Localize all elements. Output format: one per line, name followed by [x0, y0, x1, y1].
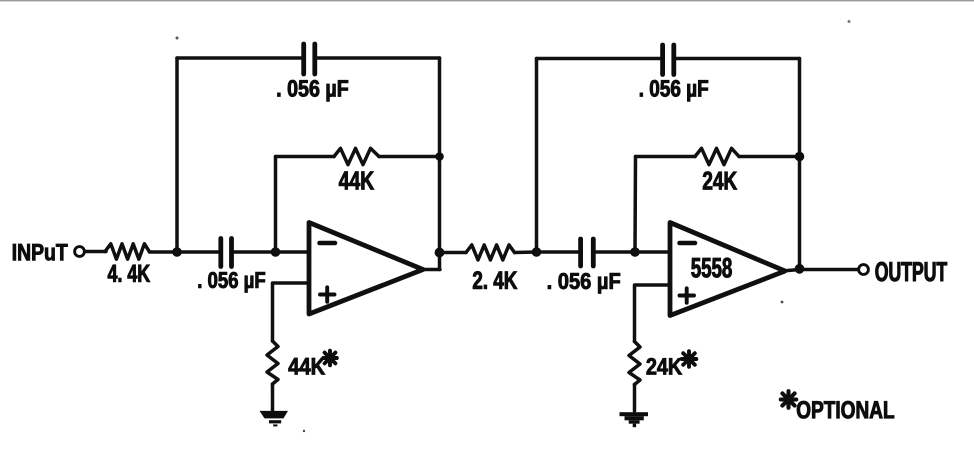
wire input terminal to R1 — [85, 250, 106, 254]
R5 wire right — [739, 155, 800, 159]
resistor R3 44K* — [267, 341, 278, 384]
INPUT label — [13, 244, 68, 261]
R6 value 24K — [647, 358, 682, 374]
C2 loop right vertical wire — [438, 58, 442, 270]
wire C1 to node B — [234, 250, 276, 254]
C4 loop right vertical wire — [798, 59, 802, 270]
C4 value .056 uF — [640, 80, 708, 101]
optional note asterisk — [781, 391, 796, 408]
capacitor C2 plates — [304, 44, 315, 74]
R6 optional asterisk — [682, 351, 697, 367]
node C output junction — [435, 248, 445, 258]
node E junction — [630, 247, 640, 257]
U1 minus input symbol — [320, 241, 336, 246]
wire R3 to ground — [271, 384, 275, 411]
wire node D to C3 — [537, 250, 579, 254]
wire R6 to ground — [633, 385, 637, 412]
wire R4 to node D — [515, 250, 537, 254]
U2 plus input wire — [635, 285, 671, 342]
resistor R5 24K — [695, 148, 739, 164]
C2 loop top wire left — [177, 56, 301, 60]
R2 loop wire left — [276, 155, 335, 159]
resistor R6 24K* — [629, 342, 640, 385]
op-amp U1 — [309, 223, 423, 315]
C1 value .056 uF — [199, 272, 266, 292]
speck top left — [176, 37, 179, 40]
R3 value 44K — [289, 358, 325, 374]
R5 value 24K — [703, 172, 737, 190]
C4 loop left vertical wire — [535, 59, 539, 253]
ground 2 — [620, 412, 649, 427]
U2 label 5558 — [691, 258, 731, 278]
R2 value 44K — [339, 172, 374, 190]
node D junction — [532, 247, 542, 257]
node A junction — [172, 247, 182, 257]
U1 output stub — [423, 268, 440, 272]
wire C3 to node E — [596, 250, 636, 254]
node F junction R5-output — [795, 152, 805, 162]
C2 value .056 uF — [277, 80, 348, 101]
wire R1 to node A — [150, 250, 178, 254]
C2 loop top wire right — [318, 56, 440, 60]
speck top right — [848, 20, 851, 23]
R4 value 2.4K — [473, 271, 517, 289]
op-amp U2 — [670, 223, 785, 316]
ground 1 — [260, 411, 289, 427]
output terminal — [859, 265, 869, 275]
R5 loop wire left — [636, 155, 696, 159]
wire node A to C1 — [177, 250, 219, 254]
OPTIONAL label — [797, 401, 894, 419]
wire node C to R4 — [440, 251, 467, 255]
input terminal — [75, 247, 85, 257]
R2 wire right — [379, 155, 440, 159]
U1 plus input wire — [273, 283, 310, 341]
wire node B to U1 minus input — [276, 250, 310, 254]
capacitor C1 plates — [221, 239, 232, 267]
U2 plus input symbol — [680, 288, 695, 302]
resistor R4 2.4K — [466, 245, 515, 260]
R5 loop left vertical wire — [633, 157, 637, 253]
U1 plus input symbol — [320, 287, 335, 301]
C2 loop left vertical wire — [175, 58, 179, 252]
resistor R1 4.4K — [105, 244, 150, 259]
C3 value .056 uF — [548, 273, 620, 293]
node B junction — [271, 247, 281, 257]
U2 minus input symbol — [680, 241, 696, 246]
OUTPUT label — [876, 262, 948, 281]
U2 output stub — [785, 270, 800, 271]
capacitor C4 plates — [663, 45, 674, 75]
node G output junction — [795, 264, 805, 274]
R3 optional asterisk — [323, 351, 337, 366]
wire node G to output terminal — [800, 268, 859, 272]
C4 loop top wire left — [537, 57, 661, 61]
speck mid right — [781, 301, 784, 304]
R1 value 4.4K — [108, 265, 150, 282]
top border line — [0, 0, 974, 1]
C4 loop top wire right — [677, 57, 800, 61]
R2 loop left vertical wire — [274, 157, 278, 253]
speck bottom — [303, 430, 305, 432]
node R2-output junction — [435, 152, 444, 161]
wire node E to U2 minus input — [635, 250, 670, 254]
capacitor C3 plates — [581, 239, 594, 266]
resistor R2 44K — [334, 148, 379, 164]
